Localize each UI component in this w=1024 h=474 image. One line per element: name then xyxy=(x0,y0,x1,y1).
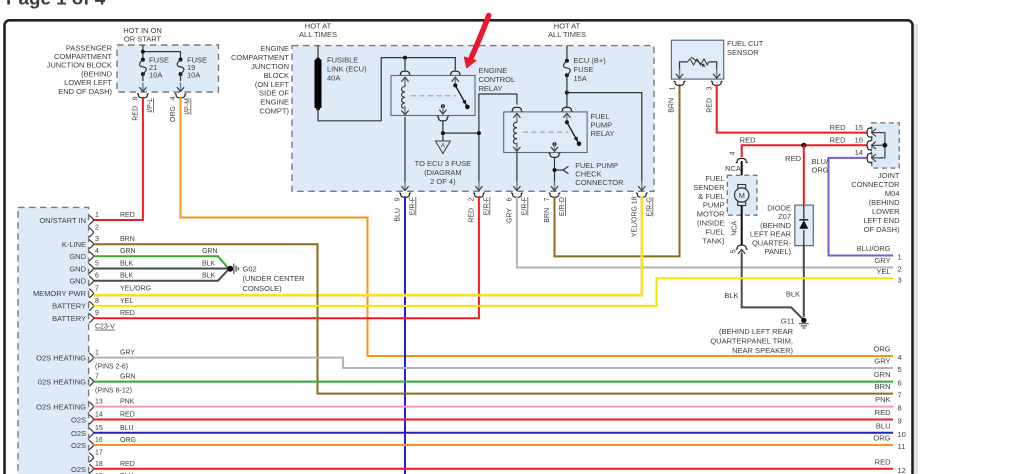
svg-text:9: 9 xyxy=(133,96,140,100)
wire PNK O2S13 to right edge pin 8 xyxy=(94,406,894,408)
svg-text:(PINS 2-6): (PINS 2-6) xyxy=(95,364,128,371)
label: engine compartment junction block xyxy=(231,44,290,115)
wire: coil pin 6 down xyxy=(516,153,518,183)
svg-text:M04: M04 xyxy=(885,189,900,198)
node: fuse feed junction xyxy=(141,50,145,54)
wire BLK GND5 to G02 xyxy=(94,268,228,270)
svg-text:9: 9 xyxy=(395,197,402,201)
fuel pump check connector xyxy=(553,161,625,187)
svg-text:15: 15 xyxy=(855,123,863,132)
ground G02 xyxy=(227,264,305,293)
wire YEL battery to right edge pin 3 xyxy=(94,278,894,306)
svg-text:END OF DASH): END OF DASH) xyxy=(58,87,112,96)
svg-text:(ON LEFT: (ON LEFT xyxy=(255,80,290,89)
svg-text:(PINS 8-12): (PINS 8-12) xyxy=(95,388,132,395)
annotation red arrow xyxy=(464,16,489,69)
svg-text:18: 18 xyxy=(632,196,639,204)
svg-text:ORG: ORG xyxy=(812,166,829,175)
wire: feed into fuse box xyxy=(143,45,181,60)
svg-text:LOWER LEFT: LOWER LEFT xyxy=(64,78,112,87)
wire RED row to M04 pin 16 with diode drop xyxy=(742,145,867,157)
svg-text:YEL: YEL xyxy=(876,267,890,276)
wire BLU pin 9 down to bottom xyxy=(404,196,406,474)
svg-text:1: 1 xyxy=(898,253,902,262)
svg-text:M: M xyxy=(739,191,745,200)
svg-text:8: 8 xyxy=(95,298,99,305)
wire RED pin 2 down to battery row xyxy=(94,196,479,318)
label: diode Z07 xyxy=(750,204,792,257)
O2S connector pin 17 xyxy=(89,450,103,463)
svg-text:K-LINE: K-LINE xyxy=(62,240,86,249)
svg-text:5: 5 xyxy=(95,261,99,268)
node: junction on RED row xyxy=(801,143,806,148)
left connector box xyxy=(18,207,89,474)
wire GRY pin 6 down then right to edge pin 2 xyxy=(517,196,893,267)
svg-text:RED: RED xyxy=(830,123,846,132)
svg-text:O2S: O2S xyxy=(71,416,86,425)
svg-text:O2S HEATING: O2S HEATING xyxy=(36,403,86,412)
svg-text:ORG: ORG xyxy=(873,345,890,354)
svg-text:16: 16 xyxy=(95,437,103,444)
svg-text:ALL TIMES: ALL TIMES xyxy=(548,30,586,39)
wire BLK GND6 to G02 xyxy=(94,270,229,281)
svg-text:RED: RED xyxy=(785,154,801,163)
svg-text:6: 6 xyxy=(507,197,514,201)
svg-text:JUNCTION BLOCK: JUNCTION BLOCK xyxy=(47,61,112,70)
svg-text:LEFT REAR: LEFT REAR xyxy=(750,230,792,239)
ground G11 xyxy=(710,316,808,355)
label RED 16 xyxy=(830,136,863,145)
pin 11 ORG xyxy=(873,434,905,452)
wire RED sensor pin 3 down then right to M04 pin 15 xyxy=(717,85,867,133)
svg-text:E/R-F: E/R-F xyxy=(410,197,417,215)
svg-text:GND: GND xyxy=(69,265,86,274)
wire GRY O2S1 to right edge pin 5 xyxy=(94,358,894,368)
svg-text:1: 1 xyxy=(95,212,99,219)
svg-text:OF DASH): OF DASH) xyxy=(864,225,900,234)
svg-text:RED: RED xyxy=(120,412,135,419)
svg-text:PNK: PNK xyxy=(120,399,135,406)
pin 18 exit E/R-G (YEL/ORG) xyxy=(632,182,654,238)
pin 2 exit E/R-F (RED) xyxy=(469,182,491,223)
O2S connector pin 14 RED xyxy=(71,412,135,425)
O2S connector pin 18 RED xyxy=(71,461,135,474)
svg-text:7: 7 xyxy=(544,197,551,201)
wire: relay common to triangle A / pin 2 / fuel pump coil xyxy=(443,94,517,182)
svg-text:2 OF 4): 2 OF 4) xyxy=(430,177,456,186)
pin 4 GND GRN xyxy=(69,248,217,261)
pin 1 BLU/ORG xyxy=(857,244,902,262)
pin 4 ORG xyxy=(873,345,901,363)
svg-text:GRY: GRY xyxy=(507,208,514,223)
svg-text:COMPT): COMPT) xyxy=(259,107,289,116)
svg-text:GRN: GRN xyxy=(202,248,218,255)
wire BLU O2S15 to right edge pin 10 xyxy=(94,432,894,434)
pin 7 BRN xyxy=(875,382,902,400)
svg-text:YEL/ORG: YEL/ORG xyxy=(632,206,639,237)
svg-text:10A: 10A xyxy=(187,71,200,80)
svg-text:2: 2 xyxy=(898,265,902,274)
svg-text:BRN: BRN xyxy=(875,382,891,391)
svg-text:FUEL: FUEL xyxy=(705,227,724,236)
svg-text:RED: RED xyxy=(120,212,135,219)
svg-text:FUSIBLE: FUSIBLE xyxy=(327,56,358,65)
pin 4 exit I/P-M xyxy=(170,74,192,122)
wire GRN O2S7 to right edge pin 6 xyxy=(94,381,894,383)
pin 5 GND BLK xyxy=(69,261,215,274)
svg-text:CONSOLE): CONSOLE) xyxy=(243,284,283,293)
svg-text:BLK: BLK xyxy=(120,261,134,268)
O2S connector pin 15 BLU xyxy=(71,425,134,438)
pin 3 YEL xyxy=(876,267,901,285)
svg-text:2: 2 xyxy=(95,224,99,231)
svg-text:BLK: BLK xyxy=(724,291,738,300)
fuse 19 10A xyxy=(177,56,207,80)
pin 6 GRN xyxy=(874,370,902,388)
svg-text:1: 1 xyxy=(95,350,99,357)
svg-text:9: 9 xyxy=(898,417,902,426)
svg-text:15: 15 xyxy=(95,425,103,432)
pin 8 PNK xyxy=(875,395,902,413)
svg-text:12: 12 xyxy=(898,466,906,474)
svg-text:2: 2 xyxy=(469,197,476,201)
svg-text:(BEHIND: (BEHIND xyxy=(81,69,112,78)
svg-text:RED: RED xyxy=(740,136,756,145)
svg-text:BLK: BLK xyxy=(786,289,800,298)
pin 3 K-LINE xyxy=(62,236,135,249)
triangle A (to ECU 3 fuse) xyxy=(415,141,472,186)
svg-text:BRN: BRN xyxy=(669,98,676,113)
svg-text:I/P-M: I/P-M xyxy=(185,98,192,115)
label BLU/ ORG two lines xyxy=(812,157,830,175)
passenger junction block box xyxy=(117,45,219,92)
node: relay coil feed tap xyxy=(403,56,407,71)
svg-text:9: 9 xyxy=(95,310,99,317)
pin 6 GND BLK xyxy=(69,273,215,286)
wire BRN K-LINE to right edge pin 7 xyxy=(94,244,894,393)
svg-text:RED: RED xyxy=(707,98,714,113)
svg-text:PUMP: PUMP xyxy=(703,201,725,210)
svg-text:ENGINE: ENGINE xyxy=(260,44,289,53)
pin 9 BATTERY RED xyxy=(52,310,135,323)
svg-text:NCA: NCA xyxy=(732,221,739,236)
pin 6 exit E/R-F (GRY) xyxy=(507,182,529,224)
wire GRN GND to G02 xyxy=(94,256,229,268)
svg-text:BLK: BLK xyxy=(202,261,216,268)
O2S connector pin 1 GRY xyxy=(36,350,135,371)
pin 2 xyxy=(89,224,99,237)
svg-text:BATTERY: BATTERY xyxy=(52,314,86,323)
wire RED O2S18 to right edge pin 12 xyxy=(94,468,894,470)
svg-text:(INSIDE: (INSIDE xyxy=(697,219,725,228)
svg-text:BATTERY: BATTERY xyxy=(52,302,86,311)
svg-text:RED: RED xyxy=(469,208,476,223)
svg-text:G02: G02 xyxy=(243,265,257,274)
svg-text:MEMORY PWR: MEMORY PWR xyxy=(33,289,87,298)
wire RED O2S14 to right edge pin 9 xyxy=(94,419,894,421)
svg-text:5: 5 xyxy=(731,249,738,253)
svg-text:RED: RED xyxy=(830,136,846,145)
pin 9 exit I/P-L xyxy=(133,74,155,121)
O2S connector pin 7 GRN xyxy=(38,374,136,395)
svg-text:FUEL CUT: FUEL CUT xyxy=(727,39,764,48)
pin 8 BATTERY YEL xyxy=(52,298,133,311)
svg-text:I/P-L: I/P-L xyxy=(147,98,154,113)
svg-text:JUNCTION: JUNCTION xyxy=(251,62,289,71)
svg-text:O2S: O2S xyxy=(71,429,86,438)
svg-text:4: 4 xyxy=(730,151,737,155)
svg-text:10A: 10A xyxy=(149,71,162,80)
pin 1 ON/START IN xyxy=(39,212,134,225)
svg-text:GRN: GRN xyxy=(120,374,136,381)
svg-text:SIDE OF: SIDE OF xyxy=(259,89,289,98)
svg-text:O2S: O2S xyxy=(71,441,86,450)
svg-text:RELAY: RELAY xyxy=(479,84,503,93)
svg-text:CONTROL: CONTROL xyxy=(479,75,516,84)
svg-text:(BEHIND: (BEHIND xyxy=(869,198,900,207)
svg-text:3: 3 xyxy=(95,236,99,243)
svg-text:PANEL): PANEL) xyxy=(764,247,791,256)
svg-text:BRN: BRN xyxy=(120,236,135,243)
svg-text:E/R-G: E/R-G xyxy=(647,197,654,216)
svg-text:4: 4 xyxy=(170,96,177,100)
svg-text:PASSENGER: PASSENGER xyxy=(66,43,113,52)
svg-text:GRN: GRN xyxy=(874,370,891,379)
svg-text:PNK: PNK xyxy=(875,395,890,404)
svg-text:6: 6 xyxy=(95,273,99,280)
svg-text:BLK: BLK xyxy=(202,273,216,280)
wire: fusible link to relay feed xyxy=(318,58,455,121)
fusible link (ECU) 40A xyxy=(315,46,368,111)
wire BLK fuel sender pin 5 to G11 xyxy=(742,253,803,319)
O2S connector pin 16 ORG xyxy=(71,437,136,450)
wire: coil pin 9 down xyxy=(404,117,406,182)
svg-text:5: 5 xyxy=(898,365,902,374)
svg-text:FUEL: FUEL xyxy=(705,174,724,183)
svg-text:COMPARTMENT: COMPARTMENT xyxy=(231,53,289,62)
svg-text:7: 7 xyxy=(95,374,99,381)
svg-text:& FUEL: & FUEL xyxy=(698,192,724,201)
wire RED from fuse 21 to ON/START IN pin 1 xyxy=(94,97,143,220)
wire: fuel pump relay common down + check connector xyxy=(555,157,569,182)
svg-text:BLK: BLK xyxy=(120,273,134,280)
label: hot at all times (left) xyxy=(299,22,337,40)
svg-text:A: A xyxy=(441,143,446,150)
svg-text:8: 8 xyxy=(898,404,902,413)
svg-text:DIODE: DIODE xyxy=(767,204,791,213)
svg-text:1: 1 xyxy=(670,86,677,90)
svg-text:LINK (ECU): LINK (ECU) xyxy=(327,65,367,74)
svg-text:ECU (B+): ECU (B+) xyxy=(574,56,607,65)
svg-text:LOWER: LOWER xyxy=(872,207,900,216)
svg-text:ORG: ORG xyxy=(120,437,136,444)
wire BLK diode to G11 xyxy=(803,246,805,317)
svg-text:RED: RED xyxy=(133,106,140,121)
svg-text:FUSE: FUSE xyxy=(574,65,594,74)
svg-text:16: 16 xyxy=(855,136,863,145)
svg-text:ORG: ORG xyxy=(873,434,890,443)
pin 9 RED xyxy=(875,408,902,426)
engine compartment junction block box xyxy=(292,46,654,192)
svg-text:BLOCK: BLOCK xyxy=(264,71,289,80)
svg-text:YEL/ORG: YEL/ORG xyxy=(120,285,151,292)
svg-text:ORG: ORG xyxy=(170,106,177,122)
svg-text:E/R-D: E/R-D xyxy=(559,197,566,216)
svg-text:4: 4 xyxy=(95,248,99,255)
wire ORG from fuse 19 down-right-down to right edge pin 4 xyxy=(181,97,894,356)
svg-text:14: 14 xyxy=(855,148,863,157)
svg-text:GND: GND xyxy=(69,252,86,261)
svg-text:02S HEATING: 02S HEATING xyxy=(38,378,86,387)
pin 9 exit E/R-F (BLU) xyxy=(395,182,417,222)
pin 10 BLU xyxy=(876,421,906,439)
svg-text:QUARTERPANEL TRIM,: QUARTERPANEL TRIM, xyxy=(710,337,793,346)
svg-text:JOINT: JOINT xyxy=(878,171,900,180)
fuse 21 10A xyxy=(140,56,169,80)
svg-text:OR START: OR START xyxy=(124,35,162,44)
svg-text:11: 11 xyxy=(898,442,906,451)
svg-text:E/R-F: E/R-F xyxy=(484,197,491,215)
svg-text:ENGINE: ENGINE xyxy=(260,98,289,107)
O2S connector pin 19 (cut off) xyxy=(95,473,134,474)
svg-text:7: 7 xyxy=(95,285,99,292)
svg-text:LEFT END: LEFT END xyxy=(863,216,900,225)
svg-text:Z07: Z07 xyxy=(778,212,791,221)
svg-text:RED: RED xyxy=(875,457,891,466)
svg-text:ENGINE: ENGINE xyxy=(479,66,508,75)
svg-text:BLU: BLU xyxy=(120,425,134,432)
pin 7 MEMORY PWR xyxy=(33,285,151,298)
pin 7 exit E/R-D (BRN) xyxy=(544,182,566,223)
O2S connector pin 13 PNK xyxy=(36,399,135,412)
svg-text:E/R-F: E/R-F xyxy=(522,197,529,215)
svg-text:RED: RED xyxy=(120,461,135,468)
svg-text:BLU: BLU xyxy=(395,208,402,222)
fuel pump relay U2 xyxy=(504,107,615,157)
svg-text:RED: RED xyxy=(875,408,891,417)
node: junction dots on relay output xyxy=(441,131,481,135)
svg-text:NEAR SPEAKER): NEAR SPEAKER) xyxy=(732,346,793,355)
svg-text:(BEHIND: (BEHIND xyxy=(760,221,791,230)
svg-text:3: 3 xyxy=(707,86,714,90)
svg-text:GRY: GRY xyxy=(874,357,890,366)
svg-text:TANK): TANK) xyxy=(703,236,725,245)
wire YEL/ORG pin 18 down then left to MEMORY PWR xyxy=(94,196,642,295)
svg-text:Page 1 of 4: Page 1 of 4 xyxy=(6,0,106,9)
svg-text:GRY: GRY xyxy=(120,350,135,357)
svg-text:QUARTER-: QUARTER- xyxy=(752,238,792,247)
svg-text:13: 13 xyxy=(95,399,103,406)
svg-text:GND: GND xyxy=(69,277,86,286)
svg-text:RED: RED xyxy=(120,310,135,317)
svg-text:TO ECU 3 FUSE: TO ECU 3 FUSE xyxy=(415,159,472,168)
svg-text:7: 7 xyxy=(898,391,902,400)
wire BRN pin 7 down-right-up to fuel cut sensor pin 1 xyxy=(555,85,680,257)
svg-text:14: 14 xyxy=(95,412,103,419)
ECU (B+) fuse 15A xyxy=(564,46,642,182)
label: passenger compartment junction block xyxy=(47,43,113,96)
label: fuel sender & fuel pump motor xyxy=(693,174,725,245)
svg-text:10: 10 xyxy=(898,430,906,439)
svg-text:RELAY: RELAY xyxy=(591,129,615,138)
svg-text:C23-V: C23-V xyxy=(95,324,115,331)
svg-text:(DIAGRAM: (DIAGRAM xyxy=(424,168,462,177)
pin 12 RED xyxy=(875,457,906,474)
svg-text:40A: 40A xyxy=(327,74,340,83)
pin 5 GRY xyxy=(874,357,901,375)
svg-text:COMPARTMENT: COMPARTMENT xyxy=(54,52,112,61)
label RED 15 xyxy=(830,123,863,132)
svg-text:SENSOR: SENSOR xyxy=(727,48,759,57)
svg-text:6: 6 xyxy=(898,379,902,388)
svg-text:O2S: O2S xyxy=(71,465,86,474)
pin 2 GRY xyxy=(874,256,901,274)
svg-text:GRY: GRY xyxy=(874,256,890,265)
svg-text:15A: 15A xyxy=(574,74,587,83)
label: joint connector M04 xyxy=(851,171,900,234)
svg-text:CONNECTOR: CONNECTOR xyxy=(575,178,624,187)
svg-text:18: 18 xyxy=(95,461,103,468)
svg-text:NCA: NCA xyxy=(725,164,741,173)
svg-text:O2S HEATING: O2S HEATING xyxy=(36,354,86,363)
svg-text:(BEHIND LEFT REAR: (BEHIND LEFT REAR xyxy=(719,327,794,336)
svg-text:CONNECTOR: CONNECTOR xyxy=(851,180,900,189)
svg-text:17: 17 xyxy=(95,450,103,457)
svg-text:BRN: BRN xyxy=(544,208,551,223)
svg-text:G11: G11 xyxy=(781,316,795,325)
svg-text:BLU: BLU xyxy=(876,421,891,430)
svg-text:MOTOR: MOTOR xyxy=(697,210,725,219)
svg-text:SENDER: SENDER xyxy=(693,183,725,192)
svg-text:ON/START IN: ON/START IN xyxy=(39,216,86,225)
engine control relay U1 xyxy=(391,66,515,121)
svg-text:4: 4 xyxy=(898,353,902,362)
svg-text:(UNDER CENTER: (UNDER CENTER xyxy=(243,274,306,283)
svg-text:ALL TIMES: ALL TIMES xyxy=(299,30,337,39)
label: hot at all times (right) xyxy=(548,22,586,40)
label: hot in on or start xyxy=(123,26,162,44)
svg-text:3: 3 xyxy=(898,275,902,284)
wire RED down to diode xyxy=(803,145,805,205)
svg-text:GRN: GRN xyxy=(120,248,136,255)
wire BLU/ORG M04 pin 14 to right edge pin 1 xyxy=(829,158,894,256)
wire ORG O2S16 to right edge pin 11 xyxy=(94,444,894,446)
svg-text:YEL: YEL xyxy=(120,298,133,305)
svg-text:BLU/ORG: BLU/ORG xyxy=(857,244,891,253)
